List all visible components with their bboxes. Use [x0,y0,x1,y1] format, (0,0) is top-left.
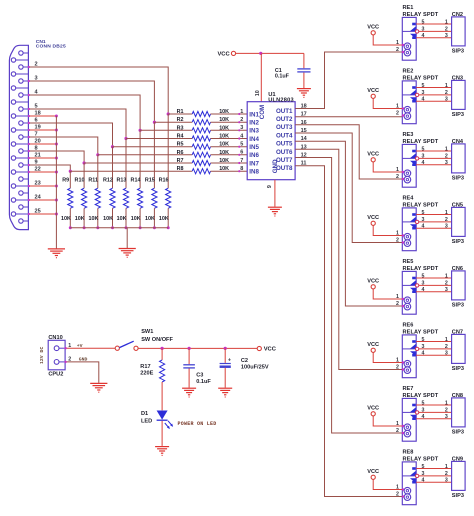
svg-text:SIP3: SIP3 [452,303,464,309]
svg-text:+: + [228,358,231,364]
wire VCC to RE4 coil pin 1 [373,225,402,235]
relay RE6 common circle pin 3 [415,347,418,350]
op-amp U1 ULN2803 body [247,102,295,180]
ground CN10 [90,383,107,392]
svg-text:1: 1 [445,146,448,152]
pin-end dot DB25 pin 22 [28,171,30,173]
wire U1 OUT8 to RE8 coil pin 2 [295,166,402,497]
svg-text:12V DC: 12V DC [39,347,45,364]
svg-text:3: 3 [445,351,448,357]
wire VCC to RE6 coil pin 1 [373,352,402,362]
wire node to resistor R8 [70,170,192,172]
wire VCC to RE5 coil pin 1 [373,289,402,299]
wire DB25 pin 18 to ground bus [28,115,56,117]
wire DB25 pin 21 to ground bus [28,157,56,159]
pin-end dot DB25 pin 2 [28,66,30,68]
svg-text:3: 3 [422,27,425,33]
pin-end dot IN2 [238,121,240,123]
svg-text:4: 4 [422,478,425,484]
svg-text:C2: C2 [241,358,248,364]
svg-text:SIP3: SIP3 [452,176,464,182]
switch SW1 [115,346,119,350]
pin-end dot CN10 pin2 [64,361,66,363]
svg-text:4: 4 [422,351,425,357]
pin-end dot RE6 pin2 [402,368,404,370]
junction ground bus pin 21 [55,157,58,160]
wire DB25 pin 9 to R8/IN8 node [28,165,70,171]
wire R6 to U1 IN6 pin 6 [211,154,248,156]
resistor R1 [192,111,210,116]
svg-text:CN10: CN10 [48,335,62,341]
svg-text:3: 3 [422,154,425,160]
wire U1 GND pin 9 to ground [274,180,276,207]
svg-text:CONN DB25: CONN DB25 [36,44,66,50]
junction VCC/COM [259,52,262,55]
svg-text:10K: 10K [103,216,113,222]
svg-text:3: 3 [445,287,448,293]
wire DB25 pin 4 to R3/IN3 node [28,95,140,130]
wire U1 OUT4 to RE4 coil pin 2 [295,133,402,243]
relay RE3 common circle pin 3 [415,157,418,160]
resistor R5 [192,144,210,149]
junction ground bus pin 18 [55,115,58,118]
junction resistor bus R13 [125,226,128,229]
pin-end dot DB25 pin 5 [28,108,30,110]
relay RE7 body [402,398,416,441]
svg-text:R12: R12 [103,178,113,184]
junction node IN5/pulldown [111,145,114,148]
wire RE6 pin 3 to CN7 pin 2 [419,348,452,350]
connector CN1 pin circles column A [19,51,29,223]
svg-text:COM: COM [259,105,266,119]
wire RE4 pin 5 to CN5 pin 1 [416,214,451,216]
connector CN7 SIP3 body [452,334,466,363]
svg-text:1: 1 [396,167,399,173]
pin-end dot IN3 [238,129,240,131]
svg-text:POWER ON LED: POWER ON LED [178,421,217,427]
pin-end dot RE2 pin2 [402,114,404,116]
svg-text:IN4: IN4 [249,136,259,143]
resistor R17 [161,348,163,360]
relay RE7 common circle pin 3 [415,411,418,414]
svg-text:VCC: VCC [367,279,379,285]
junction rail C2 [224,347,227,350]
wire node to resistor R10 [83,163,85,188]
wire RE7 pin 3 to CN8 pin 2 [419,411,452,413]
wire RE8 pin 5 to CN9 pin 1 [416,468,451,470]
junction resistor bus R11 [96,226,99,229]
wire DB25 pin 19 to ground bus [28,129,56,131]
svg-text:10K: 10K [219,125,229,131]
svg-text:RE2: RE2 [403,69,414,75]
svg-text:5: 5 [422,464,425,470]
svg-text:R17: R17 [140,364,150,370]
svg-text:2: 2 [396,47,399,53]
svg-text:3: 3 [445,33,448,39]
capacitor C2 polarized [224,348,226,363]
wire VCC to RE8 coil pin 1 [373,479,402,489]
svg-text:2: 2 [445,344,448,350]
svg-text:R1: R1 [177,109,184,115]
wire RE1 pin 3 to CN2 pin 2 [419,30,452,32]
pin-end dot DB25 pin 23 [28,185,30,187]
svg-text:4: 4 [422,160,425,166]
ground D1 [155,447,169,456]
svg-text:6: 6 [240,150,243,156]
svg-text:7: 7 [35,131,38,137]
wire U1 OUT3 to RE3 coil pin 2 [295,125,402,179]
svg-text:8: 8 [35,145,38,151]
svg-text:3: 3 [445,224,448,230]
wire R8 to U1 IN8 pin 8 [211,170,248,172]
ground C3 [182,388,196,397]
svg-text:R3: R3 [177,125,184,131]
junction node IN6/pulldown [96,153,99,156]
svg-text:10K: 10K [145,216,155,222]
wire VCC rail to C1 [236,52,304,54]
connector CN8 SIP3 body [452,398,466,427]
wire R14 to resistor ground bus [139,208,141,228]
svg-text:10K: 10K [219,150,229,156]
wire COM riser to U1 pin 10 [260,53,262,101]
resistor R4 [192,136,210,141]
relay RE3 body [402,144,416,187]
pin-end dot RE7 pin2 [402,432,404,434]
svg-text:3: 3 [422,90,425,96]
resistor R8 [192,169,210,174]
svg-text:10K: 10K [117,216,127,222]
wire VCC to RE2 coil pin 1 [373,98,402,108]
svg-text:CN3: CN3 [452,76,463,82]
wire node to resistor R1 [168,113,192,115]
svg-text:220E: 220E [140,371,153,377]
svg-text:RE8: RE8 [403,450,414,456]
svg-text:R13: R13 [116,178,126,184]
svg-text:3: 3 [422,281,425,287]
svg-text:10K: 10K [219,117,229,123]
wire RE2 pin 3 to CN3 pin 2 [419,94,452,96]
connector CN4 SIP3 body [452,144,466,173]
svg-text:2: 2 [396,238,399,244]
connector CN5 SIP3 body [452,207,466,236]
pin-end dot IN7 [238,162,240,164]
svg-text:9: 9 [267,185,273,188]
pin-end dot RE8 pin2 [402,495,404,497]
svg-text:5: 5 [422,146,425,152]
svg-text:2: 2 [445,90,448,96]
power VCC top symbol [231,51,235,55]
svg-text:1: 1 [445,210,448,216]
svg-text:21: 21 [35,152,41,158]
svg-text:R4: R4 [177,134,184,140]
svg-text:3: 3 [445,414,448,420]
pin-end dot IN5 [238,146,240,148]
pin-end dot RE7 pin1 [402,425,404,427]
svg-text:2: 2 [396,492,399,498]
svg-text:VCC: VCC [367,215,379,221]
pin-end dot IN4 [238,137,240,139]
svg-text:25: 25 [35,208,41,214]
relay RE2 body [402,81,416,124]
svg-text:1: 1 [396,358,399,364]
connector CN1 CONN DB25 body [9,45,28,229]
svg-text:2: 2 [396,365,399,371]
svg-text:24: 24 [35,194,42,200]
connector CN9 SIP3 body [452,461,466,490]
svg-text:1: 1 [396,294,399,300]
connector CN2 SIP3 body [452,17,466,46]
svg-text:CN2: CN2 [452,12,463,18]
svg-text:3: 3 [240,125,243,131]
wire DB25 pin 20 to ground bus [28,143,56,145]
svg-text:R5: R5 [177,142,184,148]
svg-text:IN7: IN7 [249,160,259,167]
resistor R9 [68,188,73,208]
svg-text:0.1uF: 0.1uF [196,379,211,385]
wire RE7 pin 4 to CN8 pin 3 [416,418,451,420]
svg-text:R9: R9 [62,178,69,184]
svg-text:D1: D1 [141,411,148,417]
junction node IN3/pulldown [139,129,142,132]
wire DB25 pin 2 to R1/IN1 node [28,67,168,114]
svg-text:1: 1 [396,40,399,46]
wire R7 to U1 IN7 pin 7 [211,162,248,164]
wire R13 to resistor ground bus [125,208,127,228]
junction ground bus pin 19 [55,129,58,132]
svg-text:CPU2: CPU2 [48,371,63,377]
wire R12 to resistor ground bus [112,208,114,228]
relay RE1 body [402,17,416,60]
wire DB25 pin 25 to ground bus [28,213,56,215]
svg-text:20: 20 [35,138,41,144]
svg-text:5: 5 [422,19,425,25]
relay RE6 body [402,335,416,378]
svg-text:VCC: VCC [367,152,379,158]
junction rail C3 [188,347,191,350]
junction ground bus pin 25 [55,213,58,216]
svg-text:10K: 10K [219,109,229,115]
wire DB25 pin 6 to R5/IN5 node [28,123,112,147]
svg-text:IN8: IN8 [249,169,259,176]
svg-text:IN1: IN1 [249,111,259,118]
wire DB25 pin 3 to R2/IN2 node [28,81,154,122]
svg-text:3: 3 [445,160,448,166]
svg-text:R8: R8 [177,166,184,172]
svg-text:2: 2 [240,117,243,123]
svg-text:4: 4 [422,287,425,293]
pin-end dot DB25 pin 24 [28,199,30,201]
wire node to resistor R11 [97,155,99,188]
svg-text:3: 3 [422,471,425,477]
svg-text:RE6: RE6 [403,323,414,329]
svg-text:5: 5 [422,273,425,279]
svg-text:2: 2 [445,27,448,33]
svg-text:VCC: VCC [264,347,277,353]
wire RE3 pin 3 to CN4 pin 2 [419,157,452,159]
junction resistor bus R14 [139,226,142,229]
svg-text:RELAY SPDT: RELAY SPDT [403,139,439,145]
svg-text:8: 8 [240,166,243,172]
resistor R15 [152,188,157,208]
relay RE8 body [402,462,416,505]
svg-text:2: 2 [445,281,448,287]
ground C2 [218,388,232,397]
svg-text:SIP3: SIP3 [452,366,464,372]
wire R16 to resistor ground bus [167,208,169,228]
pin-end dot DB25 pin 4 [28,94,30,96]
wire VCC to RE3 coil pin 1 [373,162,402,172]
svg-text:10K: 10K [219,134,229,140]
resistor R16 [166,188,171,208]
wire RE2 pin 4 to CN3 pin 3 [416,100,451,102]
svg-text:CN8: CN8 [452,393,463,399]
junction resistor bus R10 [83,226,86,229]
svg-text:10K: 10K [219,142,229,148]
resistor R7 [192,160,210,165]
ground U1 [268,207,282,216]
wire node to resistor R9 [69,171,71,188]
pin-end dot RE8 pin1 [402,488,404,490]
relay RE1 common circle pin 3 [415,30,418,33]
svg-text:5: 5 [422,83,425,89]
svg-text:1: 1 [240,109,243,115]
pin-end dot RE4 pin2 [402,241,404,243]
svg-text:SIP3: SIP3 [452,430,464,436]
wire R3 to U1 IN3 pin 3 [211,129,248,131]
svg-text:RELAY SPDT: RELAY SPDT [403,393,439,399]
pin-end dot DB25 pin 25 [28,213,30,215]
svg-text:18: 18 [35,110,41,116]
wire RE5 pin 5 to CN6 pin 1 [416,277,451,279]
LED arrows of D1 [165,423,169,428]
junction ground bus pin 20 [55,143,58,146]
svg-text:3: 3 [445,97,448,103]
svg-text:R15: R15 [145,178,155,184]
pin-end dot DB25 pin 20 [28,143,30,145]
svg-text:SIP3: SIP3 [452,493,464,499]
svg-text:CN5: CN5 [452,203,463,209]
svg-text:RELAY SPDT: RELAY SPDT [403,12,439,18]
svg-text:1: 1 [445,400,448,406]
wire node to resistor R12 [112,147,114,189]
svg-text:OUT6: OUT6 [276,149,293,156]
ground resistor bus [119,249,136,258]
junction rail R17 [161,347,164,350]
junction node IN1/pulldown [167,112,170,115]
svg-text:1: 1 [396,421,399,427]
wire R2 to U1 IN2 pin 2 [211,121,248,123]
svg-text:2: 2 [445,471,448,477]
pin-end dot RE3 pin2 [402,178,404,180]
svg-text:2: 2 [396,301,399,307]
pin-end dot IN6 [238,154,240,156]
relay RE5 body [402,271,416,314]
pin-end dot DB25 pin 19 [28,129,30,131]
power VCC rail symbol [257,346,261,350]
svg-text:6: 6 [35,117,38,123]
svg-text:2: 2 [396,111,399,117]
svg-text:IN5: IN5 [249,144,259,151]
svg-text:1: 1 [396,104,399,110]
wire VCC to RE7 coil pin 1 [373,416,402,426]
relay RE4 body [402,208,416,251]
svg-text:RELAY SPDT: RELAY SPDT [403,76,439,82]
junction ground bus pin 22 [55,171,58,174]
svg-text:SIP3: SIP3 [452,112,464,118]
svg-text:C3: C3 [196,373,203,379]
svg-text:3: 3 [422,344,425,350]
svg-text:R7: R7 [177,158,184,164]
wire RE2 pin 5 to CN3 pin 1 [416,87,451,89]
pin-end dot DB25 pin 6 [28,122,30,124]
wire RE4 pin 3 to CN5 pin 2 [419,221,452,223]
relay RE4 common circle pin 3 [415,220,418,223]
pin-end dot IN1 [238,113,240,115]
wire R11 to resistor ground bus [97,208,99,228]
svg-text:R14: R14 [131,178,141,184]
svg-text:RE4: RE4 [403,196,415,202]
svg-text:R11: R11 [88,178,98,184]
capacitor C3 [188,348,190,364]
svg-text:OUT5: OUT5 [276,141,293,148]
svg-text:10K: 10K [61,216,71,222]
wire RE8 pin 3 to CN9 pin 2 [419,475,452,477]
junction ground bus pin 24 [55,199,58,202]
svg-text:R16: R16 [159,178,169,184]
capacitor C1 [303,53,305,68]
pin-end dot CN10 pin1 [64,347,66,349]
relay RE2 common circle pin 3 [415,93,418,96]
svg-text:RE3: RE3 [403,132,414,138]
svg-text:1: 1 [396,485,399,491]
svg-text:5: 5 [422,400,425,406]
svg-text:10K: 10K [219,166,229,172]
svg-text:19: 19 [35,124,41,130]
svg-text:10K: 10K [88,216,98,222]
wire node to resistor R16 [167,114,169,188]
svg-text:VCC: VCC [367,342,379,348]
pin-end dot RE1 pin2 [402,51,404,53]
junction resistor bus R12 [111,226,114,229]
wire resistor ground bus [70,227,168,229]
svg-text:3: 3 [422,408,425,414]
junction ground bus pin 23 [55,185,58,188]
resistor R3 [192,128,210,133]
svg-text:3: 3 [422,217,425,223]
wire RE6 pin 4 to CN7 pin 3 [416,354,451,356]
svg-text:CN9: CN9 [452,457,463,463]
pin-end dot RE5 pin2 [402,305,404,307]
resistor R6 [192,152,210,157]
svg-text:SIP3: SIP3 [452,49,464,55]
wire DB25 pin 23 to ground bus [28,185,56,187]
svg-text:RELAY SPDT: RELAY SPDT [403,457,439,463]
pin-end dot DB25 pin 3 [28,80,30,82]
pin-end dot RE4 pin1 [402,234,404,236]
svg-text:1: 1 [445,83,448,89]
svg-text:SW ON/OFF: SW ON/OFF [141,337,173,343]
svg-text:10K: 10K [131,216,141,222]
wire RE7 pin 5 to CN8 pin 1 [416,404,451,406]
svg-text:OUT7: OUT7 [276,157,293,164]
wire VCC to RE1 coil pin 1 [373,35,402,45]
junction node IN4/pulldown [124,137,127,140]
resistor R10 [82,188,87,208]
wire RE6 pin 5 to CN7 pin 1 [416,341,451,343]
wire DB25 pin 8 to R7/IN7 node [28,151,84,163]
svg-text:IN2: IN2 [249,120,259,127]
wire resistor bus to ground [126,228,128,248]
